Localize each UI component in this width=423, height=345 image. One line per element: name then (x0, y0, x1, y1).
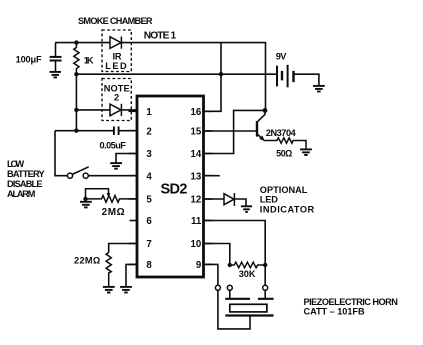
svg-text:7: 7 (146, 239, 151, 250)
junction dot diode2 row (74, 108, 78, 112)
diode D2 note2 (110, 104, 121, 116)
ground below C1 (50, 72, 62, 78)
ground battery (313, 86, 325, 92)
diode D3 optional LED indicator (224, 193, 234, 206)
op-amp U1 SD2 IC body (137, 96, 204, 277)
switch S1 contacts (67, 173, 88, 178)
transistor Q1 emitter (258, 135, 264, 141)
svg-text:15: 15 (191, 126, 202, 137)
svg-text:9: 9 (196, 260, 202, 271)
svg-text:2: 2 (146, 126, 151, 137)
piezo horn electrode stubs (230, 290, 265, 298)
svg-text:OPTIONAL: OPTIONAL (260, 185, 308, 195)
diode D1 IR LED note1 (110, 37, 121, 49)
wire pin10 down to 30K left (204, 244, 230, 266)
ground LED (241, 206, 252, 212)
svg-text:16: 16 (191, 107, 202, 118)
junction dot 30K right (263, 263, 267, 267)
potentiometer wiper arrow (107, 193, 111, 197)
wire pin9 to horn terminal (204, 264, 218, 285)
wire switch to pin4 (88, 175, 137, 177)
IC pin stubs right (204, 111, 213, 264)
svg-text:PIEZOELECTRIC HORN: PIEZOELECTRIC HORN (304, 297, 399, 307)
svg-text:10: 10 (191, 239, 202, 250)
resistor R3 22M (106, 253, 111, 287)
ground pot (80, 202, 92, 208)
svg-text:2MΩ: 2MΩ (102, 207, 125, 218)
piezo horn crystal (230, 304, 267, 312)
svg-text:30K: 30K (239, 269, 256, 279)
resistor R5 30K (230, 262, 265, 268)
svg-text:100μF: 100μF (16, 54, 42, 64)
svg-text:12: 12 (191, 195, 202, 206)
svg-text:BATTERY: BATTERY (7, 169, 45, 179)
svg-text:1: 1 (146, 107, 152, 118)
smoke chamber dashed box lower (102, 79, 131, 121)
IC pin stubs left (129, 111, 138, 264)
capacitor C2 0.05uF (114, 126, 119, 135)
switch S1 lever (72, 167, 88, 175)
ground pin3 (110, 163, 122, 169)
wire pin14 to collector node (204, 110, 266, 153)
potentiometer R2 2M zigzag (86, 196, 138, 203)
wire pin15 to transistor base (204, 130, 257, 132)
junction dot pot left (83, 197, 87, 201)
junction dot 30K left (228, 263, 232, 267)
svg-text:LOW: LOW (7, 159, 25, 169)
wire horn bottom loop to pin9 (218, 290, 250, 329)
svg-text:5: 5 (146, 195, 152, 206)
ground pin8 (120, 287, 132, 293)
wire pin2 row with series cap (55, 130, 137, 132)
wire pin11 down to horn (204, 221, 266, 286)
smoke chamber dashed box upper (102, 30, 131, 72)
wire pin16 to 9V rail (204, 43, 222, 112)
resistor R1 1K (74, 43, 79, 75)
IC pin numbers right (191, 107, 202, 271)
svg-text:11: 11 (191, 216, 202, 227)
wire second 9V rail to battery (76, 73, 277, 75)
svg-text:13: 13 (191, 171, 202, 182)
wire LED to ground (234, 199, 246, 206)
wire pin3 ground branch (116, 154, 137, 163)
capacitor C1 bottom lead (55, 61, 57, 72)
wire pin8 ground branch (126, 264, 137, 286)
capacitor C1 100uF lead (55, 43, 57, 57)
wire switch branch (55, 131, 67, 176)
svg-text:4: 4 (146, 171, 152, 182)
junction dot 1K bottom (74, 72, 78, 76)
piezo horn terminal circles (215, 285, 267, 290)
wire pin12 to LED (204, 198, 225, 200)
svg-text:SMOKE CHAMBER: SMOKE CHAMBER (78, 16, 153, 26)
svg-text:DISABLE: DISABLE (7, 179, 43, 189)
wire battery to ground (294, 74, 319, 85)
label LOW BATTERY DISABLE ALARM (7, 159, 45, 199)
wire right bus 9V down to collector node (265, 43, 267, 111)
junction dot 1K top (74, 40, 78, 44)
resistor R4 50 ohm (264, 138, 306, 149)
svg-text:ALARM: ALARM (7, 189, 36, 199)
wire photodiode row (76, 109, 137, 111)
svg-text:14: 14 (191, 149, 202, 160)
svg-text:9V: 9V (276, 52, 287, 62)
ground 50 ohm (300, 149, 312, 155)
transistor Q1 collector (258, 110, 265, 122)
piezo horn bottom plate (225, 314, 273, 316)
capacitor C1 100uF plates (50, 57, 62, 61)
wire pin13 stub (204, 175, 220, 177)
svg-text:1K: 1K (84, 56, 94, 66)
wire top 9V rail (55, 42, 266, 44)
svg-text:0.05uF: 0.05uF (100, 141, 127, 151)
junction dot pin2 row (74, 129, 78, 133)
wire pin7 branch (109, 244, 137, 253)
IC pin numbers left (146, 107, 152, 271)
junction dot pin16 rail (219, 72, 223, 76)
svg-text:INDICATOR: INDICATOR (260, 204, 315, 214)
svg-text:50Ω: 50Ω (276, 149, 292, 159)
piezo horn top electrodes (225, 298, 273, 300)
transistor Q1 2N3704 base bar (256, 121, 258, 137)
svg-text:22MΩ: 22MΩ (74, 255, 100, 265)
label OPTIONAL LED INDICATOR (260, 185, 315, 215)
transistor Q1 emitter arrow (259, 136, 264, 141)
svg-text:NOTE 1: NOTE 1 (144, 31, 177, 42)
svg-text:LED: LED (260, 195, 278, 205)
ground 22M (103, 287, 115, 293)
svg-text:2N3704: 2N3704 (266, 128, 297, 138)
svg-text:8: 8 (146, 260, 152, 271)
battery B1 9V bars (277, 65, 294, 88)
potentiometer wiper loop (86, 189, 109, 199)
svg-text:CATT – 101FB: CATT – 101FB (304, 306, 365, 316)
junction dot collector node (263, 108, 268, 113)
svg-text:SD2: SD2 (161, 182, 188, 198)
svg-text:6: 6 (146, 216, 152, 227)
svg-text:2: 2 (114, 92, 119, 102)
svg-text:LED: LED (105, 61, 127, 71)
svg-text:3: 3 (146, 149, 152, 160)
wire left bus (75, 74, 77, 131)
